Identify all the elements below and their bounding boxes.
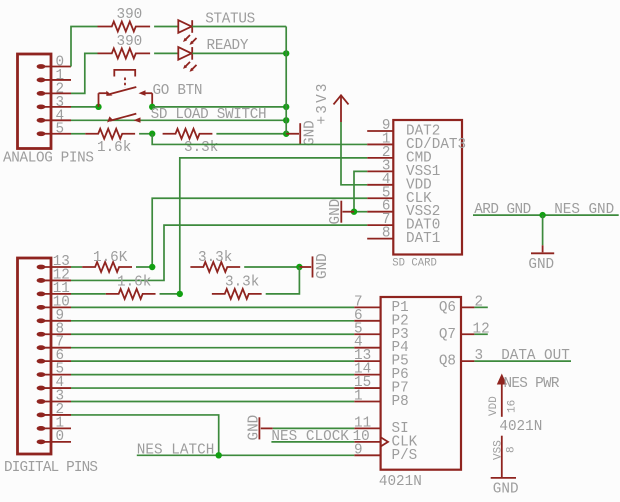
ground symbol GND SI (259, 417, 272, 439)
wire pin5 to R3 (71, 133, 85, 135)
slide switch S2 SD LOAD SWITCH (107, 114, 141, 123)
svg-text:ARD GND: ARD GND (474, 202, 531, 218)
wire switch S1 to GND rail (152, 106, 286, 108)
pin numbers SD CARD (382, 118, 391, 242)
wire pin4 to P7 (71, 387, 354, 389)
wire pin13 to R5 (71, 266, 82, 268)
svg-text:1.6k: 1.6k (97, 140, 131, 156)
wire down to ground (542, 215, 544, 245)
svg-text:NES GND: NES GND (554, 202, 614, 218)
svg-text:Q7: Q7 (439, 327, 456, 343)
wire NES LATCH (137, 454, 354, 456)
svg-text:GND: GND (328, 199, 344, 225)
svg-text:DATA OUT: DATA OUT (501, 348, 570, 364)
connector J1 ANALOG PINS (18, 54, 72, 149)
svg-text:NES CLOCK: NES CLOCK (271, 429, 349, 445)
supply +3V3 (334, 95, 349, 122)
junction (283, 104, 289, 110)
svg-text:8: 8 (506, 446, 518, 453)
junction (539, 212, 545, 218)
wire R6 to ground (244, 266, 299, 268)
svg-text:4021N: 4021N (379, 474, 422, 490)
svg-text:GND: GND (493, 482, 519, 498)
junction (149, 131, 155, 137)
pin names SD CARD (406, 124, 466, 248)
junction (283, 117, 289, 123)
connector J2 DIGITAL PINS (18, 258, 72, 454)
svg-text:VDD: VDD (488, 396, 500, 416)
svg-text:P8: P8 (392, 394, 409, 410)
svg-text:4021N: 4021N (499, 419, 542, 435)
svg-text:VSS: VSS (493, 440, 505, 460)
wire pin6 to P5 (71, 360, 354, 362)
clock wedge on CLK pin (381, 437, 388, 446)
svg-text:1: 1 (354, 389, 363, 405)
junction (283, 131, 289, 137)
pin stubs SD CARD (367, 131, 393, 239)
svg-text:READY: READY (207, 38, 249, 54)
svg-text:390: 390 (117, 7, 143, 23)
pin numbers 4021N left (353, 294, 372, 458)
wire R5 to junction (136, 266, 152, 268)
svg-text:NES PWR: NES PWR (504, 376, 560, 392)
wire pin8 to P3 (71, 333, 354, 335)
junction (216, 452, 222, 458)
svg-text:9: 9 (354, 442, 363, 458)
wire pin7 to P4 (71, 347, 354, 349)
LED STATUS (178, 20, 196, 45)
svg-text:Q6: Q6 (439, 300, 456, 316)
wire pin9 to P2 (71, 320, 354, 322)
svg-text:3.3k: 3.3k (198, 250, 232, 266)
wire pin0 to R1 (71, 27, 98, 67)
junction (149, 104, 155, 110)
wire ground branch to R8 (266, 267, 300, 294)
resistor R1 390 (98, 22, 151, 32)
svg-text:8: 8 (382, 226, 391, 242)
svg-text:3.3k: 3.3k (184, 140, 218, 156)
resistor R4 3.3k (163, 129, 213, 139)
junction (296, 264, 302, 270)
wire LED1 to GND rail (192, 26, 286, 28)
output pin stubs (461, 307, 474, 361)
wire R2 to LED2 (154, 52, 178, 54)
svg-text:SD LOAD SWITCH: SD LOAD SWITCH (151, 107, 267, 123)
junction (95, 104, 101, 110)
wire R1 to LED1 (154, 26, 178, 28)
wire Q7 tail (474, 333, 487, 335)
wire Q6 tail (474, 306, 487, 308)
resistor R6 3.3k (190, 262, 240, 272)
svg-text:GO BTN: GO BTN (153, 83, 203, 99)
svg-text:DIGITAL PINS: DIGITAL PINS (4, 460, 98, 476)
svg-text:1.6K: 1.6K (93, 250, 128, 266)
wire R3 to junction (139, 133, 152, 135)
wire ARD GND / NES GND net (473, 214, 619, 216)
pin numbers DIGITAL PINS 13-0 (53, 254, 70, 445)
pushbutton S1 GO BTN (99, 70, 153, 107)
wire pin11 to R7 (71, 293, 106, 295)
svg-text:GND: GND (528, 257, 554, 273)
ground symbol GND SD (341, 201, 354, 223)
wire NES CLOCK (271, 441, 354, 443)
svg-text:ANALOG PINS: ANALOG PINS (3, 151, 94, 167)
wire pin5 to P6 (71, 374, 354, 376)
wire CD/DAT3 net from divider (152, 134, 367, 145)
svg-text:3.3k: 3.3k (225, 275, 259, 291)
svg-text:SD CARD: SD CARD (392, 258, 437, 270)
ground symbol GND VSS (491, 477, 516, 479)
junction (283, 50, 289, 56)
svg-text:0: 0 (56, 429, 65, 445)
resistor R3 1.6k (85, 129, 135, 139)
wire VSS2 to ground (354, 211, 367, 213)
junction (177, 291, 183, 297)
wire pin4 through S2 to GND rail (71, 119, 286, 121)
resistor R2 390 (98, 48, 151, 58)
wire pin2 to NES LATCH (71, 415, 219, 455)
resistor R5 1.6K (82, 262, 132, 272)
junction (351, 209, 357, 215)
wire pin3 to P8 (71, 401, 354, 403)
IC U2 4021N box (381, 297, 461, 470)
svg-text:16: 16 (507, 400, 519, 413)
wire +3V3 to VDD (341, 122, 367, 185)
output pin numbers (473, 294, 490, 364)
IC U1 SD CARD box (393, 120, 462, 255)
pin stubs 4021N inputs (354, 307, 380, 455)
wire pin2 up to R2 (71, 53, 98, 93)
svg-text:390: 390 (117, 34, 143, 50)
resistor R8 3.3k (212, 289, 262, 299)
wire CMD net (180, 158, 367, 294)
pin numbers ANALOG PINS 0-5 (56, 55, 65, 138)
wire VSS1 to VSS2 (354, 171, 367, 211)
wire GND to SI (273, 427, 355, 429)
wire R4 to GND rail (216, 133, 286, 135)
svg-text:1.6k: 1.6k (117, 275, 151, 291)
svg-text:Q8: Q8 (439, 354, 456, 370)
pin names 4021N (392, 300, 418, 464)
wire pin10 to P1 (71, 306, 354, 308)
svg-text:NES LATCH: NES LATCH (137, 442, 215, 458)
svg-text:GND: GND (247, 415, 263, 441)
resistor R7 1.6k (106, 289, 156, 299)
ground symbol GND right (531, 245, 554, 253)
wire CLK net (152, 198, 367, 267)
GND rail vertical wire (285, 27, 287, 134)
supply NES PWR arrow (497, 374, 507, 417)
svg-text:STATUS: STATUS (205, 12, 255, 28)
ground symbol GND analog rail (286, 123, 300, 144)
pin VSS 8 (501, 436, 503, 478)
wire DAT0 net to pin12 (71, 225, 367, 280)
svg-text:GND: GND (315, 253, 331, 279)
junction (149, 264, 155, 270)
LED READY (178, 47, 196, 72)
svg-text:P/S: P/S (392, 448, 418, 464)
wire DATA OUT (474, 360, 571, 362)
wire pin3 to switch S1 (71, 106, 99, 108)
wire LED2 to GND rail (192, 52, 286, 54)
wire R7 to junction (160, 293, 180, 295)
svg-text:DAT1: DAT1 (406, 231, 440, 247)
ground symbol GND pullups (299, 256, 312, 277)
output pin names Q6 Q7 Q8 (439, 300, 456, 370)
svg-text:5: 5 (56, 122, 65, 138)
